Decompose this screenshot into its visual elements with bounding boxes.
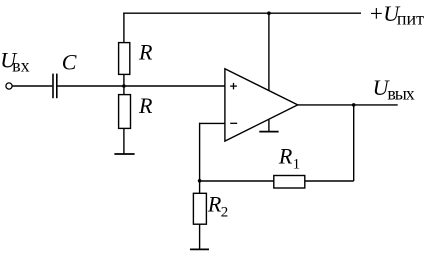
wire: feedback horizontal to R1 — [305, 180, 354, 182]
wire: R1 to inverting node — [200, 180, 274, 182]
wire: R2 to ground — [199, 224, 201, 249]
wire: inverting node vertical — [199, 123, 201, 194]
resistor R (lower bias) — [119, 95, 131, 129]
value label R2 — [207, 192, 228, 221]
output label Uвых — [373, 75, 415, 104]
wire: input terminal to capacitor — [12, 85, 52, 87]
svg-text:R: R — [138, 39, 153, 64]
input terminal (open circle) — [6, 83, 12, 89]
ground (bias divider) — [114, 153, 134, 155]
wire: inverting input stub — [200, 122, 225, 124]
junction dot: inverting feedback node — [198, 179, 202, 183]
wire: lower resistor to ground — [123, 128, 125, 154]
wire: op-amp output — [298, 104, 398, 106]
svg-text:+: + — [370, 1, 383, 26]
ground (R2) — [190, 248, 209, 250]
svg-text:вх: вх — [12, 56, 30, 76]
wire: feedback vertical from output node — [353, 105, 355, 181]
svg-text:1: 1 — [293, 157, 301, 173]
pin marker + (non-inverting input) — [230, 83, 237, 90]
pin marker - (inverting input) — [230, 122, 237, 124]
ground (op-amp) stub — [268, 119, 270, 131]
value label R1 — [278, 143, 300, 172]
op-amp U1 triangle — [225, 69, 298, 141]
svg-text:2: 2 — [221, 204, 229, 220]
ground (op-amp) bar — [259, 131, 278, 133]
resistor R (upper bias) — [119, 43, 130, 75]
power label +Uпит — [370, 1, 424, 29]
wire: rail down to upper bias resistor — [123, 13, 125, 43]
capacitor C — [53, 74, 57, 99]
resistor R2 — [193, 193, 206, 224]
svg-text:вых: вых — [387, 83, 414, 103]
wire: supply branch down to op-amp top edge — [268, 13, 270, 90]
wire: upper resistor to divider node — [123, 74, 125, 94]
junction dot: divider node — [122, 84, 126, 88]
svg-text:R: R — [278, 143, 293, 168]
wire: capacitor to non-inverting input — [58, 85, 225, 87]
svg-text:C: C — [62, 49, 77, 74]
junction dot on supply rail — [267, 11, 271, 15]
svg-text:R: R — [138, 93, 153, 118]
input label Uвх — [0, 48, 29, 76]
svg-text:пит: пит — [397, 9, 424, 29]
junction dot: output node — [352, 103, 356, 107]
wire: top supply rail — [123, 12, 361, 14]
resistor R1 — [274, 176, 305, 189]
svg-text:R: R — [207, 192, 222, 217]
